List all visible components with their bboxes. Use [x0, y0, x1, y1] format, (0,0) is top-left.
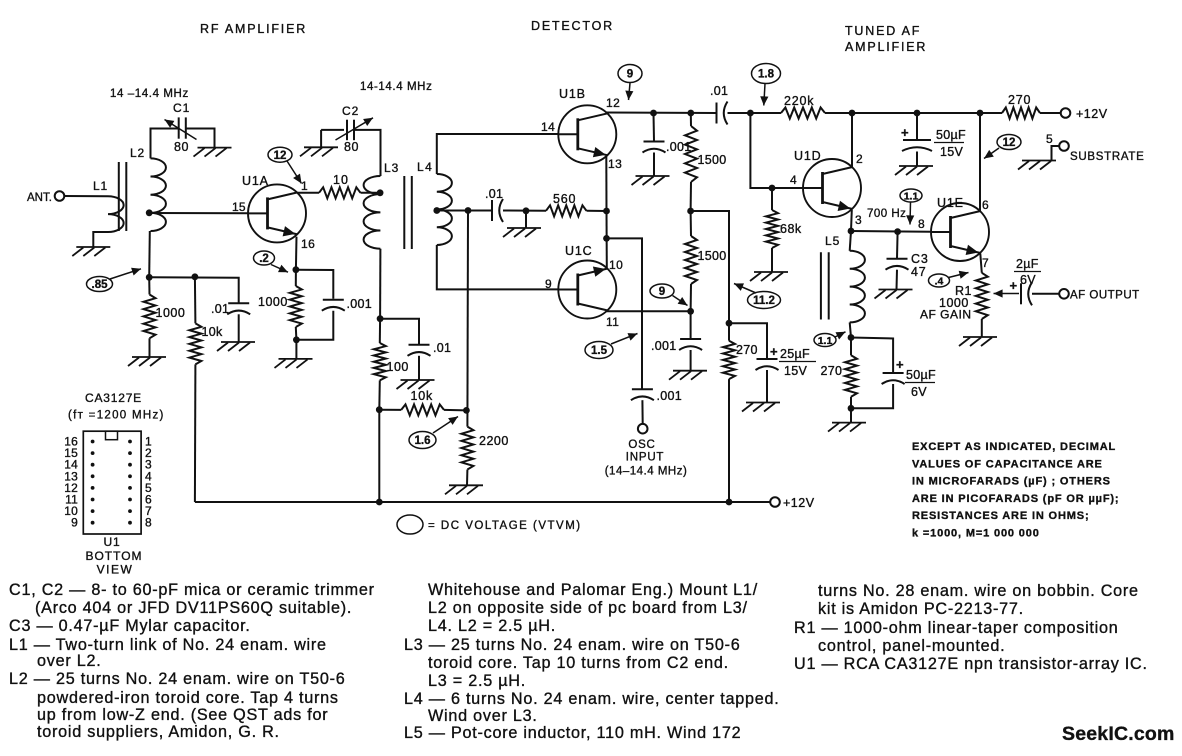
- wire +12V bus: [195, 501, 770, 503]
- svg-text:Whitehouse and Palomar Eng.): Whitehouse and Palomar Eng.) Mount L1/: [428, 581, 758, 599]
- svg-text:1500: 1500: [698, 249, 727, 263]
- terminal SUBSTRATE: [1059, 141, 1069, 151]
- svg-text:1.5: 1.5: [591, 345, 608, 357]
- bubble .4: [929, 274, 950, 287]
- transistor U1A: [248, 184, 306, 242]
- svg-text:.001: .001: [657, 389, 683, 403]
- wire 50uF/15V stem: [916, 113, 918, 140]
- node pin4 branch: [747, 110, 754, 117]
- svg-text:+: +: [770, 344, 778, 359]
- svg-text:up from low-Z end. (See QST ad: up from low-Z end. (See QST ads for: [37, 706, 328, 724]
- svg-text:1.1: 1.1: [818, 335, 833, 347]
- svg-text:VALUES OF CAPACITANCE ARE: VALUES OF CAPACITANCE ARE: [912, 458, 1103, 470]
- svg-text:+: +: [901, 125, 909, 140]
- svg-text:9: 9: [659, 286, 665, 298]
- svg-text:8: 8: [918, 217, 925, 231]
- svg-text:7: 7: [982, 256, 989, 270]
- wiper arrow R1: [994, 293, 1020, 295]
- svg-text:CA3127E: CA3127E: [85, 391, 142, 405]
- bubble 1.1 (pin3): [900, 189, 922, 202]
- wire 560 to pin13 node: [587, 210, 607, 212]
- svg-text:AMPLIFIER: AMPLIFIER: [845, 40, 927, 54]
- node 1500 mid: [687, 208, 694, 215]
- svg-text:+: +: [896, 357, 904, 372]
- node 560 left / ground: [523, 207, 530, 214]
- trimmer capacitor C2: [346, 120, 348, 141]
- svg-text:50µF: 50µF: [936, 128, 966, 142]
- node 68k top: [769, 185, 776, 192]
- svg-text:BOTTOM: BOTTOM: [85, 549, 142, 563]
- svg-text:+: +: [1010, 278, 1018, 293]
- terminal +12V (bottom): [770, 497, 780, 507]
- wire .01 to ground (osc inj): [418, 356, 420, 380]
- svg-text:turns No. 28 enam. wire on bo: turns No. 28 enam. wire on bobbin. Core: [818, 582, 1139, 600]
- svg-text:(14–14.4 MHz): (14–14.4 MHz): [605, 466, 688, 478]
- svg-text:1000: 1000: [156, 306, 186, 320]
- bubble 12 (U1E): [997, 135, 1021, 150]
- resistor 220k: [781, 108, 825, 119]
- svg-text:9: 9: [545, 277, 552, 291]
- wire .001 to ground: [653, 153, 655, 177]
- wire .001 stem: [653, 113, 656, 141]
- svg-text:kit is Amidon PC-2213-77.: kit is Amidon PC-2213-77.: [818, 600, 1024, 618]
- svg-text:16: 16: [301, 237, 315, 251]
- resistor 100: [379, 319, 381, 343]
- svg-text:14 –14.4 MHz: 14 –14.4 MHz: [110, 88, 189, 100]
- svg-text:12: 12: [1003, 137, 1016, 149]
- svg-text:U1B: U1B: [559, 87, 586, 101]
- resistor 560: [546, 205, 587, 216]
- inductor L3: [364, 176, 381, 249]
- bubble 1.6: [409, 432, 436, 449]
- capacitor 50uF 6V: [883, 372, 904, 374]
- wire pin10 branch right/down: [607, 238, 643, 388]
- svg-text:.01: .01: [710, 84, 728, 98]
- wire .001 pin11 to ground: [690, 350, 692, 371]
- node .001 top (U1B out): [650, 110, 657, 117]
- svg-text:ARE IN PICOFARADS (pF OR µµF);: ARE IN PICOFARADS (pF OR µµF);: [912, 493, 1119, 505]
- bubble 12 (U1A collector DC voltage): [268, 147, 292, 162]
- wire U1A collector pin1: [298, 192, 320, 194]
- transistor U1E: [931, 203, 989, 261]
- svg-text:11.2: 11.2: [753, 295, 775, 307]
- svg-text:DETECTOR: DETECTOR: [531, 19, 614, 33]
- ground (C2): [304, 146, 338, 148]
- svg-text:25µF: 25µF: [780, 347, 810, 361]
- svg-text:3: 3: [855, 213, 862, 227]
- ground (R1): [963, 336, 997, 338]
- IC notch: [106, 431, 118, 440]
- arrow from bubble .85: [110, 269, 141, 279]
- arrow from bubble 1.5: [611, 334, 638, 345]
- svg-text:k =1000, M=1 000 000: k =1000, M=1 000 000: [912, 528, 1040, 540]
- bubble 9 (pin12): [618, 65, 642, 83]
- wire ANT to L1: [64, 195, 108, 197]
- ground (C1): [198, 147, 232, 149]
- node L4 center tap: [433, 207, 440, 214]
- svg-text:50µF: 50µF: [906, 368, 936, 382]
- inductor L1: [108, 196, 124, 232]
- arrow from bubble .4: [949, 273, 969, 278]
- svg-text:100: 100: [387, 360, 409, 374]
- arrow from bubble .2: [271, 265, 288, 273]
- bubble .2: [254, 251, 275, 265]
- wire L4 bottom to U1C base pin 9: [437, 245, 559, 289]
- node L3 bottom: [377, 315, 384, 322]
- wire C2 right to L3 top: [355, 130, 381, 176]
- wire L4 top to U1B base: [437, 134, 559, 174]
- svg-text:Wind over L3.: Wind over L3.: [428, 707, 538, 725]
- node L2 tap to U1A base: [146, 209, 153, 216]
- svg-text:L3 — 25 turns No. 24 enam. wir: L3 — 25 turns No. 24 enam. wire on T50-6: [404, 636, 741, 654]
- wire pin11 node to .001: [690, 311, 692, 338]
- capacitor .001 (pin11): [680, 338, 701, 340]
- node 100 bottom: [376, 406, 383, 413]
- wire 25uF to ground: [766, 370, 768, 403]
- capacitor .01 (AF coupling): [716, 103, 718, 124]
- arrow from bubble 1.1 (pin3): [909, 202, 912, 225]
- svg-text:1000: 1000: [258, 295, 288, 309]
- svg-text:C1: C1: [173, 101, 190, 115]
- wire .01 to ground: [238, 314, 240, 342]
- node emitter network bottom: [293, 336, 300, 343]
- ground (substrate): [1022, 160, 1056, 162]
- svg-text:powdered-iron toroid core. Tap: powdered-iron toroid core. Tap 4 turns: [37, 689, 339, 707]
- wire L1 bottom to ground: [93, 232, 108, 247]
- svg-text:6: 6: [982, 198, 989, 212]
- bubble 1.8: [752, 64, 781, 84]
- wire U1B emitter down: [605, 156, 607, 211]
- transistor U1D: [803, 159, 861, 217]
- arrow from bubble 9 (pin11): [673, 296, 688, 306]
- svg-text:.001: .001: [651, 339, 677, 353]
- wire 50uF/6V bottom: [851, 384, 893, 408]
- svg-text:47: 47: [911, 265, 927, 279]
- node pin13/560: [603, 208, 610, 215]
- svg-text:+12V: +12V: [1076, 107, 1108, 121]
- svg-text:2200: 2200: [479, 434, 509, 448]
- wire L2 bottom: [148, 231, 151, 277]
- wire .01 to 560: [503, 210, 546, 212]
- svg-text:SUBSTRATE: SUBSTRATE: [1070, 151, 1144, 163]
- wire 50uF to ground: [916, 152, 918, 167]
- svg-text:15V: 15V: [784, 364, 808, 378]
- node pin16: [293, 266, 300, 273]
- svg-text:1500: 1500: [698, 153, 727, 167]
- capacitor 50uF 15V: [903, 139, 931, 141]
- inductor L5: [850, 251, 865, 323]
- node 270 top: [726, 320, 733, 327]
- ground (25uF): [746, 402, 780, 404]
- svg-text:.2: .2: [259, 253, 269, 265]
- capacitor .001 (U1A emitter): [323, 299, 344, 301]
- svg-text:over L2.: over L2.: [37, 652, 102, 670]
- svg-text:U1: U1: [104, 535, 121, 549]
- resistor 10k (vert): [194, 277, 197, 324]
- wire rail after 220k: [825, 112, 1002, 114]
- resistor 270 (+12V): [1002, 108, 1040, 119]
- svg-text:toroid suppliers, Amidon, G. R: toroid suppliers, Amidon, G. R.: [37, 723, 280, 741]
- resistor 1000 (AGC): [148, 277, 150, 294]
- svg-text:(fᴛ =1200 MHz): (fᴛ =1200 MHz): [68, 410, 165, 422]
- wire .85 bus: [149, 277, 239, 303]
- ground (C3): [879, 289, 913, 291]
- resistor 68k: [771, 188, 773, 210]
- svg-text:L5 — Pot-core inductor, 110 mH: L5 — Pot-core inductor, 110 mH. Wind 172: [404, 724, 741, 742]
- svg-text:68k: 68k: [780, 222, 802, 236]
- svg-text:6V: 6V: [911, 385, 927, 399]
- svg-text:9: 9: [627, 69, 633, 81]
- capacitor .01 (detector coupling): [491, 200, 493, 221]
- bubble 11.2: [748, 292, 781, 309]
- wire U1A emitter pin16: [295, 237, 298, 270]
- wire 2uF to AF OUTPUT: [1032, 293, 1059, 295]
- svg-text:= DC VOLTAGE (VTVM): = DC VOLTAGE (VTVM): [428, 520, 582, 532]
- wire resistor 10 to L3 tap: [361, 192, 381, 194]
- svg-text:L3: L3: [384, 161, 399, 175]
- node L3 tap: [377, 189, 384, 196]
- resistor R1: [976, 273, 988, 319]
- wire osc cap to terminal: [641, 400, 643, 424]
- ground (50uF 15V): [899, 165, 933, 167]
- svg-text:L1: L1: [93, 179, 108, 193]
- svg-text:L4 — 6 turns No. 24 enam. wire: L4 — 6 turns No. 24 enam. wire, center t…: [404, 690, 780, 708]
- arrow from bubble 11.2: [734, 284, 756, 294]
- resistor 10k (horiz): [401, 404, 444, 415]
- svg-text:AF GAIN: AF GAIN: [920, 308, 972, 322]
- svg-text:AF OUTPUT: AF OUTPUT: [1070, 290, 1140, 302]
- svg-text:VIEW: VIEW: [97, 563, 134, 577]
- resistor 270 (detector): [728, 323, 730, 341]
- svg-text:C2: C2: [342, 104, 359, 118]
- arrow from bubble 9 (pin12): [629, 83, 631, 100]
- transistor U1B: [558, 105, 616, 163]
- terminal AF OUTPUT: [1059, 289, 1069, 299]
- svg-text:80: 80: [174, 140, 189, 154]
- svg-text:L2 — 25 turns No. 24 enam. wir: L2 — 25 turns No. 24 enam. wire on T50-6: [9, 670, 346, 688]
- resistor 1000 (U1A emitter): [295, 270, 297, 286]
- svg-text:9: 9: [71, 516, 78, 530]
- svg-text:control, panel-mounted.: control, panel-mounted.: [818, 637, 1005, 655]
- ground (2200): [449, 484, 483, 486]
- arrow from bubble 12 (U1E): [984, 148, 999, 159]
- transistor U1C: [558, 261, 616, 319]
- svg-text:R1 — 1000-ohm linear-taper com: R1 — 1000-ohm linear-taper composition: [794, 619, 1119, 637]
- wire cap .001 bottom: [296, 311, 333, 340]
- svg-text:U1D: U1D: [794, 149, 821, 163]
- ground (68k): [754, 271, 788, 273]
- svg-text:10k: 10k: [411, 389, 434, 403]
- ground (.001 det): [636, 175, 670, 177]
- legend oval: [397, 515, 423, 534]
- svg-text:560: 560: [553, 192, 576, 206]
- capacitor .01 (osc inj): [409, 344, 430, 346]
- node 270AF bottom: [848, 405, 855, 412]
- wire rail AF segment: [728, 112, 782, 114]
- wire C3 stem: [896, 232, 899, 258]
- ground (.001 pin11): [673, 370, 707, 372]
- arrow from bubble 1.1 (L5): [835, 332, 846, 337]
- wire substrate to ground: [1052, 146, 1060, 161]
- wire 270 to +12V terminal: [1040, 112, 1061, 114]
- terminal +12V (top): [1061, 108, 1071, 118]
- terminal ANT: [55, 191, 65, 201]
- svg-text:RF AMPLIFIER: RF AMPLIFIER: [200, 22, 307, 36]
- svg-text:U1A: U1A: [242, 174, 269, 188]
- wire node x468 down to 2200: [466, 211, 469, 427]
- resistor 2200: [461, 427, 473, 470]
- wire L5 bottom stem: [850, 322, 851, 337]
- ground (560 node): [507, 227, 541, 229]
- svg-text:C3: C3: [911, 252, 929, 266]
- node U1E collector rail: [977, 110, 984, 117]
- svg-text:L4. L2 = 2.5 µH.: L4. L2 = 2.5 µH.: [428, 617, 556, 635]
- capacitor 25uF: [757, 358, 778, 360]
- node bus/270: [726, 499, 733, 506]
- wire 1500mid to x729: [691, 211, 729, 323]
- svg-text:11: 11: [606, 315, 619, 329]
- svg-text:270: 270: [1008, 93, 1031, 107]
- resistor 1500 (upper): [690, 113, 692, 126]
- svg-text:8: 8: [145, 516, 152, 530]
- wire U1C emitter pin11: [607, 310, 691, 312]
- arrow from bubble 1.8: [764, 84, 765, 106]
- svg-text:12: 12: [606, 96, 620, 110]
- svg-text:TUNED AF: TUNED AF: [845, 24, 921, 38]
- bubble .85: [87, 277, 113, 292]
- svg-text:OSC: OSC: [628, 439, 655, 451]
- svg-text:15V: 15V: [940, 145, 964, 159]
- wire ground stem (560 node): [525, 211, 527, 228]
- wire pin4 vertical: [750, 113, 803, 188]
- svg-text:ANT.: ANT.: [27, 192, 52, 204]
- bubble 1.1 (L5): [814, 334, 836, 347]
- capacitor .001 (detector out): [644, 141, 665, 143]
- resistor 10: [319, 187, 361, 198]
- IC U1 package outline: [83, 431, 141, 534]
- svg-text:.01: .01: [433, 341, 451, 355]
- resistor 1500 (lower): [690, 211, 692, 236]
- wire C1 to ground: [187, 129, 215, 148]
- svg-text:L5: L5: [825, 234, 840, 248]
- svg-text:SeekIC.com: SeekIC.com: [1062, 723, 1175, 745]
- svg-text:1: 1: [301, 179, 308, 193]
- node 50uF/15V top: [914, 110, 921, 117]
- svg-text:C1, C2 — 8- to 60-pF mica or c: C1, C2 — 8- to 60-pF mica or ceramic tri…: [9, 581, 375, 599]
- bubble 1.5: [585, 342, 613, 359]
- svg-text:.4: .4: [935, 275, 944, 287]
- wire C3 to ground: [896, 270, 899, 290]
- svg-text:L2: L2: [130, 146, 145, 160]
- wire 25uF branch: [729, 323, 767, 358]
- wire C2 left to ground: [321, 129, 344, 131]
- svg-text:.85: .85: [92, 279, 109, 291]
- svg-text:10k: 10k: [202, 325, 224, 339]
- svg-text:U1C: U1C: [565, 244, 592, 258]
- node U1D collector: [849, 110, 856, 117]
- node L5 bottom: [848, 334, 855, 341]
- capacitor 2uF: [1020, 283, 1022, 304]
- wire to ground (U1A emitter): [295, 340, 297, 359]
- node pin11/1500: [687, 308, 694, 315]
- wire U1E collector: [979, 113, 981, 211]
- transformer core L5: [820, 252, 822, 319]
- svg-text:(Arco 404 or JFD DV11PS60Q sui: (Arco 404 or JFD DV11PS60Q suitable).: [35, 599, 352, 617]
- wire U1B collector to rail: [606, 112, 716, 115]
- terminal OSC INPUT: [638, 424, 648, 434]
- svg-text:1.1: 1.1: [904, 190, 919, 202]
- wire pin3 to pin8: [851, 230, 931, 233]
- svg-text:700 Hz: 700 Hz: [867, 208, 906, 220]
- svg-text:C3 — 0.47-µF Mylar capacitor.: C3 — 0.47-µF Mylar capacitor.: [9, 617, 251, 635]
- svg-text:80: 80: [344, 140, 359, 154]
- wire 50uF/6V branch top: [851, 338, 893, 373]
- ground (270 AF): [832, 422, 866, 424]
- node bus/L3 line: [376, 499, 383, 506]
- capacitor C3: [887, 258, 908, 260]
- svg-text:U1E: U1E: [937, 196, 964, 210]
- svg-text:10: 10: [609, 258, 623, 272]
- svg-text:2µF: 2µF: [1016, 257, 1039, 271]
- svg-text:L4: L4: [417, 160, 433, 174]
- wire 100 bottom to +12V bus: [378, 410, 380, 502]
- ground (1000 AGC): [132, 356, 166, 358]
- transformer core L3/L4: [403, 176, 405, 249]
- node (junction x468): [465, 207, 472, 214]
- wire pin13 node down: [606, 211, 608, 268]
- svg-text:4: 4: [790, 173, 797, 187]
- svg-text:.01: .01: [485, 187, 503, 201]
- wire L3 bottom: [379, 249, 381, 319]
- ground (.01 osc inj): [401, 379, 435, 381]
- arrow from bubble 12 to pin 1: [287, 161, 302, 184]
- wire L5 top stem: [850, 231, 851, 251]
- inductor L4: [437, 174, 452, 245]
- wire L2 top to C1: [151, 129, 179, 159]
- arrow from bubble 1.6: [433, 417, 458, 434]
- node .85 junction: [146, 274, 153, 281]
- svg-text:L3 = 2.5 µH.: L3 = 2.5 µH.: [428, 672, 526, 690]
- svg-text:+12V: +12V: [783, 496, 815, 510]
- wire 270 to bus: [728, 379, 730, 502]
- svg-text:RESISTANCES ARE IN OHMS;: RESISTANCES ARE IN OHMS;: [912, 510, 1089, 522]
- svg-text:14: 14: [541, 120, 555, 134]
- ground (L1): [76, 246, 110, 248]
- capacitor .01 (RF bypass): [228, 302, 249, 304]
- node 10k top: [192, 273, 199, 280]
- svg-text:L2 on opposite side of pc boar: L2 on opposite side of pc board from L3/: [428, 599, 748, 617]
- node pin10 branch: [603, 235, 610, 242]
- ground (.01 RF): [221, 341, 255, 343]
- svg-text:15: 15: [232, 200, 246, 214]
- node pin3: [848, 228, 855, 235]
- svg-text:2: 2: [856, 152, 863, 166]
- svg-text:5: 5: [1046, 132, 1053, 146]
- wire U1D emitter: [850, 210, 853, 231]
- wire U1D collector: [851, 113, 853, 167]
- wire to ground (270 AF): [850, 408, 852, 422]
- node 1500 top: [687, 110, 694, 117]
- svg-text:U1 — RCA CA3127E npn transisto: U1 — RCA CA3127E npn transistor-array IC…: [794, 655, 1148, 673]
- svg-text:1.8: 1.8: [758, 69, 775, 81]
- node C3 top: [894, 228, 901, 235]
- inductor L2: [151, 158, 166, 231]
- wire L3bot to .01: [380, 319, 419, 344]
- svg-text:12: 12: [274, 150, 287, 162]
- wire U1E emitter to R1: [980, 254, 982, 273]
- wire 2200 to ground: [466, 470, 468, 486]
- svg-text:6V: 6V: [1020, 273, 1036, 287]
